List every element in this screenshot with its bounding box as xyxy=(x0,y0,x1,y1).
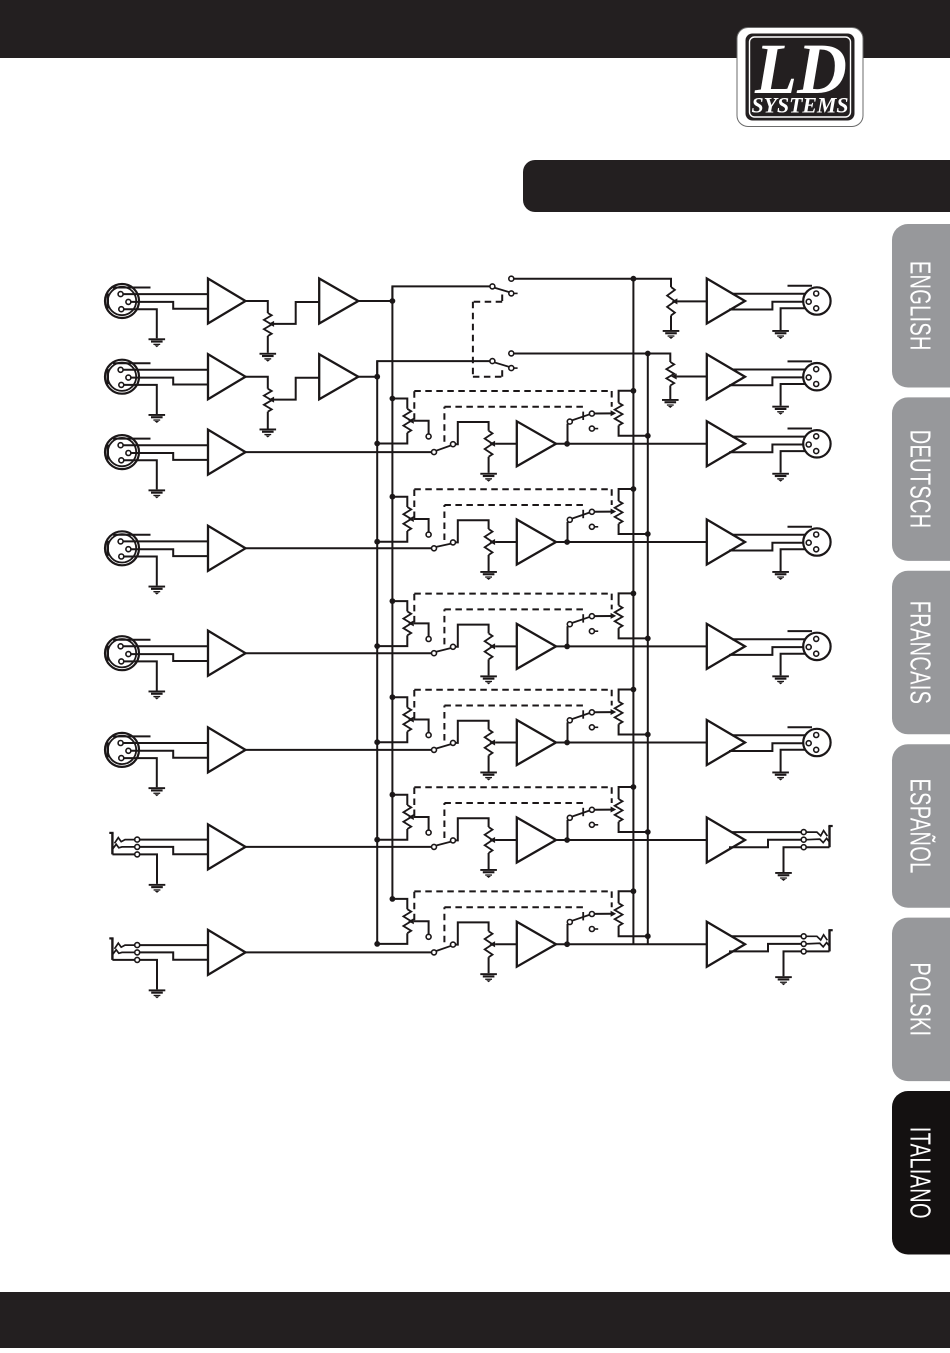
wire channel amp to output amp row 7 xyxy=(556,839,707,841)
wire IN4 pin1 to ground xyxy=(124,557,157,586)
junction bus B row 4 xyxy=(374,539,380,545)
jack contact circles OUT7 xyxy=(801,830,806,850)
junction bus C row 7 xyxy=(631,784,637,790)
wire OUT6 shell stub xyxy=(788,726,813,728)
wire bus pot to bus B row 6 xyxy=(377,732,407,743)
op-amp input buffer row 3 xyxy=(208,430,246,475)
select switch pole contact row 6 xyxy=(432,747,437,752)
wire OUT5 pin1 to ground xyxy=(781,654,814,676)
XLR input connector IN6 xyxy=(105,733,139,767)
channel pot wiper arrow row 6 xyxy=(490,740,496,746)
bus-level pot row 4 xyxy=(403,507,411,531)
trim pot (variable resistor) row 2 xyxy=(264,389,272,412)
link switch lever row 3 xyxy=(572,414,590,420)
wire IN5 pin2 to buffer xyxy=(123,645,209,647)
wire bus A to bus-level pot row 3 xyxy=(392,399,407,409)
junction bus B row 7 xyxy=(374,837,380,843)
tab ESPAÑOL xyxy=(892,744,950,908)
ground input row 7 xyxy=(149,884,166,893)
wire send pot top to bus C row 5 xyxy=(619,593,634,605)
junction channel out row 3 xyxy=(564,441,570,447)
switch S2 lower throw contact xyxy=(509,366,518,371)
switch S2 lever xyxy=(494,362,509,367)
wire OUT6 pin1 to ground xyxy=(781,750,814,772)
wire link switch to send pot wiper row 4 xyxy=(594,511,612,513)
wire bus A to bus-level pot row 8 xyxy=(392,899,407,909)
op-amp input buffer row 5 xyxy=(208,631,246,676)
channel level pot row 7 xyxy=(485,827,493,853)
junction bus A tap row 5 xyxy=(390,598,396,604)
select switch bus throw contact row 5 xyxy=(426,637,431,642)
wire pot to ground row 2 xyxy=(267,412,269,429)
master level pot row 1 xyxy=(667,287,675,316)
select switch direct throw contact row 4 xyxy=(451,540,456,545)
wire bus pot wiper to switch throw row 6 xyxy=(414,720,429,733)
wire bus A to switch 1 pole xyxy=(392,286,490,301)
wire amp to OUT1 pin3 xyxy=(729,302,806,310)
wire channel pot to ground row 7 xyxy=(488,853,490,869)
wire channel pot to ground row 6 xyxy=(488,756,490,772)
dashed gang link inner row 7 xyxy=(444,803,584,838)
pot wiper arrow master 2 xyxy=(671,374,677,380)
send pot wiper arrow row 8 xyxy=(611,911,617,917)
ground input row 8 xyxy=(149,989,166,998)
junction bus A tap row 4 xyxy=(390,494,396,500)
select switch lever row 5 xyxy=(436,648,451,652)
wire bus pot wiper to switch throw row 3 xyxy=(414,421,429,434)
link switch nc contact row 7 xyxy=(589,822,598,827)
wire channel amp to output amp row 6 xyxy=(556,742,707,744)
pin circles OUT2 xyxy=(806,367,819,387)
switch S2 pole contact xyxy=(490,359,495,364)
wire link switch to send pot wiper row 8 xyxy=(594,913,612,915)
wire buffer out to select switch row 4 xyxy=(246,547,432,549)
link switch pole contact row 8 xyxy=(567,920,572,925)
dashed gang link inner row 6 xyxy=(444,706,584,741)
dashed gang link outer row 6 xyxy=(414,690,611,719)
channel level pot row 5 xyxy=(485,633,493,659)
bus-level pot row 5 xyxy=(403,611,411,635)
pot wiper arrow row 2 xyxy=(269,397,275,403)
dashed gang link inner row 4 xyxy=(444,505,584,540)
wire channel pot to ground row 8 xyxy=(488,957,490,973)
wire amp to OUT3 pin2 xyxy=(732,436,814,438)
wire wiper to channel amp row 3 xyxy=(495,443,517,445)
wire OUT5 shell stub xyxy=(788,630,813,632)
trim pot (variable resistor) row 1 xyxy=(264,313,272,336)
wire amp to OUT4 pin3 xyxy=(729,543,806,551)
op-amp output driver row 1 xyxy=(707,279,745,324)
dashed gang link inner row 5 xyxy=(444,609,584,644)
jack output connector OUT8 xyxy=(806,930,832,951)
wire send pot bottom to bus D row 7 xyxy=(619,822,648,832)
select switch bus throw contact row 6 xyxy=(426,733,431,738)
pin circles IN6 xyxy=(118,741,131,761)
bus-level pot row 3 xyxy=(403,409,411,433)
wire OUT2 pin1 to ground xyxy=(781,384,814,406)
switch S1 lever xyxy=(494,288,509,293)
link switch gang tick row 4 xyxy=(582,510,584,518)
send pot row 3 xyxy=(615,403,623,426)
wire OUT2 shell stub xyxy=(788,360,813,362)
wire IN8 ring to buffer xyxy=(140,952,208,959)
ground output row 1 xyxy=(772,330,789,339)
link switch lever row 4 xyxy=(572,512,590,518)
svg-text:ESPAÑOL: ESPAÑOL xyxy=(904,778,935,873)
wire IN8 sleeve to ground xyxy=(140,960,157,990)
wire send pot top to bus C row 7 xyxy=(619,787,634,799)
wire IN3 pin1 to ground xyxy=(124,460,157,489)
wire channel pot to ground row 3 xyxy=(488,457,490,473)
select switch lever row 3 xyxy=(436,445,451,450)
op-amp output driver row 2 xyxy=(707,354,745,399)
junction bus C row 8 xyxy=(631,888,637,894)
wire send pot top to bus C row 6 xyxy=(619,690,634,702)
master level pot row 2 xyxy=(666,362,674,386)
wire bus A to bus-level pot row 4 xyxy=(392,497,407,507)
wire bus pot to bus B row 8 xyxy=(377,933,407,944)
junction bus B row 8 xyxy=(374,941,380,947)
bus-level pot row 8 xyxy=(403,909,411,933)
select switch direct throw contact row 5 xyxy=(451,644,456,649)
bus wire A (left pair, from IN1 buffer) xyxy=(391,286,393,899)
wire switch to channel pot row 6 xyxy=(455,721,488,743)
XLR output connector OUT2 xyxy=(803,363,830,390)
junction bus A tap row 8 xyxy=(390,896,396,902)
wire send pot top to bus C row 4 xyxy=(619,489,634,501)
op-amp channel amp row 7 xyxy=(517,818,556,863)
junction bus D top xyxy=(645,351,651,357)
dashed gang link outer row 8 xyxy=(414,891,611,920)
wire amp to OUT7 tip xyxy=(732,831,801,833)
select switch lever row 6 xyxy=(436,744,451,748)
link switch pole contact row 3 xyxy=(567,419,572,424)
wire IN6 pin2 to buffer xyxy=(123,742,209,744)
wire line amp out to bus B xyxy=(358,376,377,378)
wire OUT1 shell stub xyxy=(788,285,813,287)
dashed gang link inner row 3 xyxy=(444,407,584,442)
wire switch to channel pot row 3 xyxy=(455,422,488,444)
ground output row 3 xyxy=(772,473,789,482)
link switch nc contact row 4 xyxy=(589,524,598,529)
ground trim pot row 1 xyxy=(260,353,277,362)
link switch nc contact row 6 xyxy=(589,725,598,730)
send pot row 5 xyxy=(615,605,623,628)
link switch lever row 5 xyxy=(572,617,590,623)
select switch direct throw contact row 8 xyxy=(451,942,456,947)
ground output row 6 xyxy=(772,772,789,781)
ground output row 2 xyxy=(772,406,789,415)
wire amp to OUT8 tip xyxy=(732,935,801,937)
link switch pole contact row 4 xyxy=(567,517,572,522)
dashed gang link outer row 3 xyxy=(414,391,611,420)
jack input connector IN8 xyxy=(109,938,134,960)
wire link switch to send pot wiper row 6 xyxy=(594,711,612,713)
wire OUT3 shell stub xyxy=(788,428,813,430)
wire switch to channel pot row 7 xyxy=(455,818,488,840)
wire buffer out to select switch row 8 xyxy=(246,951,432,953)
bus pot wiper arrow row 8 xyxy=(408,918,414,924)
ground channel pot row 7 xyxy=(480,869,497,878)
ground output row 5 xyxy=(772,675,789,684)
wire junction up to link switch row 4 xyxy=(567,522,569,542)
wire amp to OUT3 pin3 xyxy=(729,445,806,453)
link switch gang tick row 6 xyxy=(582,710,584,718)
ground input row 3 xyxy=(149,489,166,498)
link switch throw contact row 7 xyxy=(589,807,594,812)
wire channel pot to ground row 5 xyxy=(488,659,490,675)
link switch throw contact row 3 xyxy=(589,411,594,416)
op-amp output driver row 8 xyxy=(707,922,745,967)
tab FRANCAIS xyxy=(892,571,950,735)
junction bus A tap row 6 xyxy=(390,694,396,700)
ground output row 8 xyxy=(775,976,792,985)
wire IN6 shell stub xyxy=(113,735,151,737)
wire IN4 pin3 to buffer xyxy=(131,549,209,556)
wire wiper to channel amp row 8 xyxy=(495,943,517,945)
wire amp to OUT6 pin2 xyxy=(732,734,814,736)
dashed gang link inner row 8 xyxy=(444,907,584,942)
send pot row 4 xyxy=(615,501,623,524)
wire switch to channel pot row 8 xyxy=(455,922,488,944)
LD Systems logo xyxy=(737,28,863,127)
op-amp channel amp row 6 xyxy=(517,720,556,765)
jack output connector OUT7 xyxy=(806,826,832,847)
wire OUT3 pin1 to ground xyxy=(781,451,814,473)
link switch pole contact row 6 xyxy=(567,718,572,723)
wire channel amp to output amp row 8 xyxy=(556,943,707,945)
wire junction up to link switch row 8 xyxy=(567,924,569,944)
op-amp channel amp row 4 xyxy=(517,520,556,565)
bus wire B (left pair, from IN2 buffer) xyxy=(376,361,378,944)
bus pot wiper arrow row 7 xyxy=(408,814,414,820)
wire IN6 pin1 to ground xyxy=(124,758,157,787)
XLR output connector OUT1 xyxy=(803,287,830,314)
junction bus D row 8 xyxy=(645,933,651,939)
channel level pot row 3 xyxy=(485,431,493,457)
junction bus B row 5 xyxy=(374,643,380,649)
wire pot to ground row 1 xyxy=(267,336,269,353)
send pot row 6 xyxy=(615,702,623,725)
op-amp input buffer row 2 xyxy=(208,354,246,399)
junction bus C row 4 xyxy=(631,486,637,492)
select switch direct throw contact row 7 xyxy=(451,838,456,843)
channel pot wiper arrow row 3 xyxy=(490,441,496,447)
dashed gang link outer row 4 xyxy=(414,489,611,518)
select switch direct throw contact row 3 xyxy=(451,442,456,447)
op-amp output driver row 5 xyxy=(707,624,745,669)
wire junction up to link switch row 7 xyxy=(567,820,569,840)
select switch pole contact row 3 xyxy=(432,450,437,455)
wire IN1 pin2 to buffer xyxy=(123,293,209,295)
junction bus A tap row 3 xyxy=(390,396,396,402)
junction bus A tap row 7 xyxy=(390,792,396,798)
pin circles OUT1 xyxy=(806,291,819,311)
switch S2 upper throw contact xyxy=(509,351,514,356)
ground input row 6 xyxy=(149,787,166,796)
XLR output connector OUT4 xyxy=(803,528,830,555)
svg-text:FRANCAIS: FRANCAIS xyxy=(904,601,935,704)
dashed gang link outer row 7 xyxy=(414,787,611,816)
dashed gang link outer row 5 xyxy=(414,594,611,623)
link switch pole contact row 5 xyxy=(567,622,572,627)
send pot wiper arrow row 3 xyxy=(611,410,617,416)
pin circles OUT6 xyxy=(806,733,819,753)
wire IN8 tip to buffer xyxy=(140,944,208,946)
link switch lever row 6 xyxy=(572,713,590,719)
op-amp input buffer row 7 xyxy=(208,824,246,869)
wire amp to OUT1 pin2 xyxy=(732,293,814,295)
ground trim pot row 2 xyxy=(260,429,277,438)
wire link switch to send pot wiper row 5 xyxy=(594,615,612,617)
wire junction up to link switch row 5 xyxy=(567,626,569,646)
link switch throw contact row 5 xyxy=(589,614,594,619)
svg-text:ENGLISH: ENGLISH xyxy=(904,261,935,351)
bottom footer bar xyxy=(0,1292,950,1348)
junction bus C row 3 xyxy=(631,388,637,394)
pin circles IN4 xyxy=(118,539,131,559)
wire OUT1 pin1 to ground xyxy=(781,308,814,330)
switch S1 upper throw contact xyxy=(509,276,514,281)
channel pot wiper arrow row 5 xyxy=(490,643,496,649)
junction channel out row 7 xyxy=(564,837,570,843)
wire junction up to link switch row 6 xyxy=(567,722,569,742)
ground channel pot row 4 xyxy=(480,571,497,580)
channel pot wiper arrow row 4 xyxy=(490,539,496,545)
pot wiper arrow master 1 xyxy=(672,298,678,304)
wire IN5 pin1 to ground xyxy=(124,661,157,690)
link switch throw contact row 6 xyxy=(589,710,594,715)
ground input row 5 xyxy=(149,691,166,700)
select switch bus throw contact row 7 xyxy=(426,830,431,835)
wire amp to OUT2 pin3 xyxy=(729,377,806,385)
wire bus pot wiper to switch throw row 8 xyxy=(414,921,429,934)
switch S1 lower throw contact xyxy=(509,291,518,296)
ground input row 2 xyxy=(149,414,166,423)
wire bus pot to bus B row 4 xyxy=(377,531,407,542)
wire channel pot to ground row 4 xyxy=(488,555,490,571)
select switch bus throw contact row 3 xyxy=(426,434,431,439)
op-amp line amp row 1 xyxy=(319,279,358,324)
wire OUT7 sleeve to ground xyxy=(784,847,802,872)
wire IN3 shell stub xyxy=(113,438,151,440)
link switch gang tick row 7 xyxy=(582,808,584,816)
wire bus pot wiper to switch throw row 4 xyxy=(414,519,429,532)
junction bus B xyxy=(374,374,380,380)
select switch lever row 7 xyxy=(436,842,451,846)
select switch pole contact row 4 xyxy=(432,546,437,551)
select switch bus throw contact row 4 xyxy=(426,532,431,537)
ground input row 1 xyxy=(149,338,166,347)
send pot wiper arrow row 4 xyxy=(611,509,617,515)
link switch nc contact row 8 xyxy=(589,927,598,932)
XLR input connector IN1 xyxy=(105,284,139,318)
channel pot wiper arrow row 7 xyxy=(490,837,496,843)
wire amp to OUT5 pin3 xyxy=(729,647,806,655)
send pot row 7 xyxy=(615,799,623,822)
channel level pot row 4 xyxy=(485,529,493,555)
wire send pot bottom to bus D row 3 xyxy=(619,426,648,436)
wire wiper to channel amp row 4 xyxy=(495,541,517,543)
tab POLSKI xyxy=(892,918,950,1082)
wire IN5 pin3 to buffer xyxy=(131,654,209,661)
wire wiper to line amp row 2 xyxy=(274,378,319,400)
wire IN4 pin2 to buffer xyxy=(123,540,209,542)
wire bus pot to bus B row 3 xyxy=(377,433,407,444)
switch S1 pole contact xyxy=(490,284,495,289)
op-amp channel amp row 5 xyxy=(517,624,556,669)
wire bus A to bus-level pot row 5 xyxy=(392,601,407,611)
wire buffer out to select switch row 3 xyxy=(246,451,432,453)
wire channel amp to output amp row 5 xyxy=(556,645,707,647)
select switch lever row 4 xyxy=(436,544,451,547)
ground input row 4 xyxy=(149,586,166,595)
junction bus A xyxy=(390,298,396,304)
link switch gang tick row 5 xyxy=(582,614,584,622)
jack input connector IN7 xyxy=(109,833,134,855)
wire amp to OUT2 pin2 xyxy=(732,369,814,371)
section title bar xyxy=(523,160,950,212)
junction channel out row 4 xyxy=(564,539,570,545)
send pot row 8 xyxy=(615,903,623,926)
select switch pole contact row 7 xyxy=(432,844,437,849)
send pot wiper arrow row 5 xyxy=(611,613,617,619)
XLR input connector IN4 xyxy=(105,531,139,565)
junction bus D row 6 xyxy=(645,732,651,738)
wire channel amp to output amp row 3 xyxy=(556,443,707,445)
wire OUT8 sleeve to ground xyxy=(784,951,802,976)
wire bus pot to bus B row 7 xyxy=(377,829,407,840)
wire bus pot wiper to switch throw row 5 xyxy=(414,623,429,636)
link switch nc contact row 3 xyxy=(589,426,598,431)
junction bus C row 6 xyxy=(631,687,637,693)
top header bar xyxy=(0,0,950,58)
wire switch to channel pot row 5 xyxy=(455,625,488,647)
channel level pot row 6 xyxy=(485,730,493,756)
junction bus C row 5 xyxy=(631,591,637,597)
select switch lever row 8 xyxy=(436,946,451,951)
op-amp input buffer row 4 xyxy=(208,526,246,571)
send pot wiper arrow row 6 xyxy=(611,709,617,715)
wire buffer out to select switch row 6 xyxy=(246,749,432,751)
pin circles OUT3 xyxy=(806,434,819,454)
channel level pot row 8 xyxy=(485,931,493,957)
XLR output connector OUT3 xyxy=(803,430,830,457)
op-amp line amp row 2 xyxy=(319,354,358,399)
wire line amp out to bus A xyxy=(358,300,392,302)
wire junction up to link switch row 3 xyxy=(567,424,569,444)
wire buffer out to select switch row 5 xyxy=(246,652,432,654)
wire amp to OUT6 pin3 xyxy=(729,743,806,751)
select switch pole contact row 5 xyxy=(432,651,437,656)
op-amp output driver row 7 xyxy=(707,818,745,863)
junction channel out row 8 xyxy=(564,941,570,947)
wire master pot 2 to ground xyxy=(669,386,671,400)
ground output row 4 xyxy=(772,571,789,580)
link switch gang tick row 3 xyxy=(582,412,584,420)
wire switch 1 to bus C and master pot 1 xyxy=(514,279,671,287)
wire switch to channel pot row 4 xyxy=(455,520,488,542)
wire buffer out to trim pot row 2 xyxy=(246,377,268,389)
wire amp to OUT8 ring xyxy=(729,944,801,952)
tab ENGLISH xyxy=(892,224,950,388)
wire IN3 pin2 to buffer xyxy=(123,444,209,446)
op-amp channel amp row 8 xyxy=(517,922,556,967)
pin circles OUT5 xyxy=(806,636,819,656)
junction bus D row 7 xyxy=(645,829,651,835)
junction bus B row 3 xyxy=(374,441,380,447)
wire IN1 pin1 to ground xyxy=(124,309,157,338)
